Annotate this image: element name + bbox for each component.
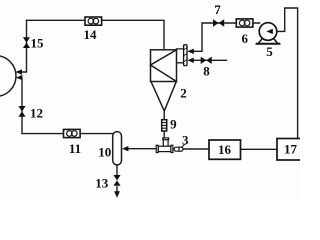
wire cyclone apex to feeder 9 — [163, 111, 165, 120]
wire column 10 drain through valve 13 — [116, 165, 118, 192]
wire top-right line: corner above cyclone inlet, through valve 7 / flowmeter 6 to pump 5 — [190, 23, 260, 51]
arrow into flange from top line — [187, 49, 193, 54]
valve 7 — [213, 19, 224, 27]
valve 8 — [201, 57, 212, 64]
feeder 9 — [162, 120, 167, 131]
blower 1 — [0, 56, 16, 97]
svg-text:13: 13 — [95, 175, 109, 190]
arrow into flange from valve 8 — [187, 58, 193, 63]
wire valve 8 branch line into cyclone inlet flange — [190, 59, 227, 61]
svg-text:5: 5 — [266, 44, 273, 59]
svg-text:3: 3 — [182, 133, 189, 148]
arrow into blower 1 from valve 12 line — [16, 75, 23, 80]
wire tee 3 left port into column 10 — [125, 148, 156, 150]
svg-text:9: 9 — [170, 117, 177, 132]
valve 15 — [23, 37, 30, 48]
svg-text:8: 8 — [203, 64, 210, 79]
arrow into column 10 — [122, 146, 128, 151]
svg-text:6: 6 — [242, 31, 249, 46]
svg-text:15: 15 — [31, 36, 45, 51]
wire pump 5 suction loop: from right edge top corner down to tank 17 — [270, 8, 298, 139]
svg-text:14: 14 — [84, 27, 98, 42]
inlet flange — [184, 45, 187, 66]
svg-text:12: 12 — [30, 105, 43, 120]
valve 12 — [18, 106, 25, 117]
wire top-left main line from valve 15 corner through flowmeter 14 to cyclone top — [27, 20, 165, 50]
svg-text:17: 17 — [284, 142, 298, 157]
wire valve 15 vertical line into blower 1 — [18, 20, 27, 72]
arrow into pump center — [266, 29, 272, 34]
arrow into blower 1 from valve 15 line — [15, 69, 22, 74]
flowmeter 14 — [85, 17, 102, 25]
wire valve 12 line: blower 1 down to bottom-left corner then right to column 10 — [22, 79, 113, 134]
flowmeter 11 — [64, 129, 81, 137]
svg-text:10: 10 — [98, 145, 111, 160]
label 3 leader line — [182, 144, 185, 147]
box 17 — [277, 139, 303, 161]
flowmeter 6 — [236, 19, 253, 27]
box 16 — [209, 140, 241, 159]
valve 13 — [113, 175, 120, 186]
drain arrow below valve 13 — [114, 191, 120, 198]
tee fitting 3 — [156, 138, 183, 153]
wire box 16 to box 17 — [241, 148, 278, 150]
wire tee 3 outlet to box 16 — [183, 148, 209, 150]
pump 5 — [257, 23, 280, 44]
svg-text:2: 2 — [180, 85, 187, 100]
svg-text:7: 7 — [214, 2, 221, 17]
cyclone inlet duct — [177, 49, 184, 63]
svg-text:11: 11 — [69, 141, 81, 156]
wire feeder 9 to tee 3 — [163, 131, 165, 139]
cyclone 2 body — [151, 50, 177, 111]
column 10 — [113, 132, 122, 165]
svg-text:16: 16 — [218, 142, 232, 157]
